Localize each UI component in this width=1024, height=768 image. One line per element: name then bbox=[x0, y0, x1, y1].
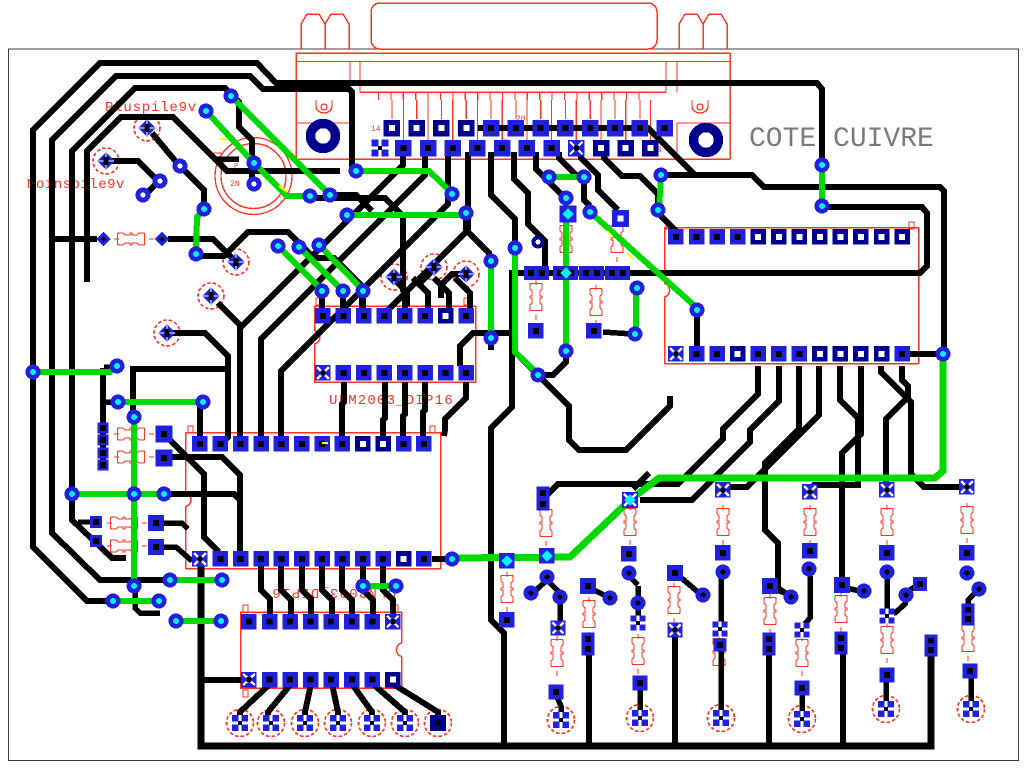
pad U1 bottom 12 bbox=[416, 551, 432, 567]
pad U4 top 10 bbox=[853, 229, 869, 245]
wire U1 to U3 pin 322 bbox=[322, 566, 332, 614]
via ch1 low bbox=[553, 590, 568, 605]
wire from P4 bbox=[218, 303, 243, 328]
wire fan t7 bbox=[886, 366, 908, 486]
pad ch0 low bbox=[499, 612, 515, 628]
wire J1-5 to via bbox=[491, 152, 515, 244]
wire vertical bbox=[130, 371, 136, 414]
via ch 887 bbox=[880, 565, 895, 580]
pad ch4 mid bbox=[795, 623, 810, 638]
pad U1 bottom 1 bbox=[192, 551, 208, 567]
via 160,181 bbox=[153, 174, 168, 189]
wire U1 to U3 pin 281 bbox=[281, 566, 291, 614]
wire J1-1 to U1 bbox=[240, 152, 403, 438]
wire web d bbox=[540, 377, 670, 450]
wire net1 ring outer bbox=[33, 63, 822, 601]
pad ch 629 bbox=[621, 546, 637, 562]
wire ch3 bbox=[718, 576, 724, 624]
wire U2 to U1 d bbox=[423, 382, 425, 436]
capacitor C1 outline bbox=[215, 138, 292, 215]
circle mark pad P7 bbox=[421, 254, 447, 280]
pad J1 bottom 9 bbox=[568, 140, 585, 157]
wire J1-9 to pad bbox=[581, 152, 618, 210]
wire fan t2 bbox=[765, 366, 799, 595]
via 134,417 bbox=[127, 410, 142, 425]
pad U2 top 6 bbox=[418, 308, 434, 324]
pad U2 bottom 5 bbox=[397, 365, 413, 381]
IC U4 outline (DIP24 right) bbox=[665, 228, 919, 364]
pad J1 top 14 bbox=[384, 120, 401, 137]
via 343,291 bbox=[336, 284, 351, 299]
wire R1 to P3 bbox=[168, 239, 236, 262]
pad ch5aux b bbox=[835, 642, 848, 655]
pad U4 bottom 6 bbox=[771, 346, 787, 362]
via 134,494 bbox=[127, 487, 142, 502]
resistor RB4 bbox=[583, 597, 595, 637]
circle mark terminal T7 bbox=[425, 710, 452, 737]
pad J1 top 16 bbox=[433, 120, 450, 137]
pad ch 723 bbox=[715, 545, 731, 561]
connector J1 hex standoff right bbox=[679, 14, 727, 49]
wire U3 pin to terminal 438 bbox=[393, 684, 438, 717]
via 159,601 bbox=[152, 594, 167, 609]
pad L440 bbox=[98, 435, 109, 446]
via 319,245 bbox=[312, 238, 327, 253]
resistor RA5 bbox=[881, 505, 893, 545]
pin marks bbox=[316, 298, 321, 305]
pad U2 top 1 bbox=[315, 308, 331, 324]
pad U2 bottom 4 bbox=[377, 365, 393, 381]
pad J1 bottom 8 bbox=[543, 140, 560, 157]
via 590,212 bbox=[583, 205, 598, 220]
wire feed U2 pad 428 bbox=[413, 278, 428, 310]
wire ground bus bbox=[201, 566, 931, 746]
wire via to U4 pin2 bbox=[694, 312, 700, 350]
pad U4 top 12 bbox=[894, 229, 910, 245]
wire green g14 bbox=[515, 248, 538, 374]
wire bbox=[144, 184, 156, 196]
wire U4 pin to via bbox=[906, 351, 938, 357]
pad mid 571 bbox=[564, 266, 578, 280]
wire stub R4 bbox=[78, 520, 92, 525]
pad U4 bottom 2 bbox=[689, 346, 705, 362]
via ch 967 bbox=[960, 566, 975, 581]
wire R3 path bbox=[170, 457, 240, 500]
IC U3 outline ULN2003_DIP16 bbox=[241, 612, 402, 688]
pad U4 top 9 bbox=[833, 229, 849, 245]
pad J1 top 15 bbox=[408, 120, 425, 137]
wire green g15 bbox=[488, 261, 494, 338]
pad U4 top 4 bbox=[730, 229, 746, 245]
via ch 629 bbox=[622, 566, 637, 581]
pad U4 bottom 1 bbox=[668, 346, 684, 362]
circle mark terminal U4 bbox=[789, 706, 816, 733]
wire via to via2 bbox=[544, 355, 566, 375]
pad chE top bbox=[879, 482, 895, 498]
pad U3 top 7 bbox=[365, 614, 381, 630]
svg-text:COTE CUIVRE: COTE CUIVRE bbox=[749, 124, 934, 155]
via 231,96 bbox=[224, 89, 239, 104]
via 396,586 bbox=[389, 579, 404, 594]
pad R1 right (diamond) bbox=[155, 232, 169, 246]
via 637,288 bbox=[630, 281, 645, 296]
pad U4 bottom 3 bbox=[709, 346, 725, 362]
resistor RA4 bbox=[804, 505, 816, 545]
wire R2 to U1 bbox=[168, 438, 219, 552]
wire J1-8 to via bbox=[559, 152, 581, 176]
pad mid 542 bbox=[535, 266, 549, 280]
wire via to via bbox=[466, 217, 489, 258]
wire stub bbox=[104, 364, 113, 370]
via ch5 aux bbox=[899, 588, 914, 603]
pad J1 bottom 4 bbox=[445, 140, 462, 157]
via 452,559 bbox=[445, 552, 460, 567]
via 549,177 bbox=[542, 170, 557, 185]
wire via to U1 pin3 bbox=[170, 494, 240, 553]
pad U3 top 6 bbox=[344, 614, 360, 630]
wire ch1 bbox=[547, 580, 559, 592]
pad ch2aux a bbox=[582, 633, 595, 646]
wire P6 to U2 bbox=[394, 279, 407, 306]
via 117,366 bbox=[110, 359, 125, 374]
pad J1 top 20 bbox=[533, 120, 550, 137]
via ch 809 bbox=[802, 562, 817, 577]
wire ch2c bbox=[635, 606, 641, 618]
pad U1 bottom 2 bbox=[213, 551, 229, 567]
wire green g17 bbox=[590, 212, 697, 308]
pad U1 top 10 bbox=[375, 436, 391, 452]
via 822,206 bbox=[815, 199, 830, 214]
wire to U1 pin bbox=[222, 369, 228, 443]
wire ch1 to term bbox=[556, 695, 561, 714]
pad X 167,333 bbox=[158, 324, 176, 342]
pad U4 bottom 11 bbox=[874, 346, 890, 362]
pad U1 top 1 bbox=[192, 436, 208, 452]
pad J1 bottom 2 bbox=[395, 140, 412, 157]
pad bus end a bbox=[925, 635, 938, 648]
via 356,171 bbox=[349, 164, 364, 179]
wire U2 to U1 a bbox=[342, 382, 344, 436]
wire P7 bbox=[420, 269, 434, 283]
wire from P5 bbox=[167, 333, 228, 371]
pad mid top bbox=[560, 206, 577, 223]
via 310,196 bbox=[303, 189, 318, 204]
wire J1-4 to U2 bbox=[384, 152, 468, 312]
pad U4 bottom 5 bbox=[751, 346, 767, 362]
wire C1 stub bbox=[217, 156, 239, 162]
svg-text:Moinspile9v: Moinspile9v bbox=[27, 177, 125, 193]
pad U4 bottom 8 bbox=[812, 346, 828, 362]
pad J1 top 22 bbox=[582, 120, 599, 137]
via 322,291 bbox=[315, 284, 330, 299]
pad U4 top 8 bbox=[812, 229, 828, 245]
resistor RB5 bbox=[668, 583, 680, 623]
circle mark terminal U2 bbox=[627, 705, 654, 732]
pad U3 bottom 3 bbox=[282, 672, 298, 688]
via 254,184 bbox=[247, 177, 262, 192]
pad U3 top 2 bbox=[262, 614, 278, 630]
via 697,310 bbox=[690, 303, 705, 318]
pad X 236,262 bbox=[227, 253, 245, 271]
pad U3 bottom 5 bbox=[323, 672, 339, 688]
pad U1 bottom 11 bbox=[396, 551, 412, 567]
circle mark pad P2 bbox=[93, 148, 119, 174]
pad U4 top 1 bbox=[668, 229, 684, 245]
pad U1 bottom 3 bbox=[233, 551, 249, 567]
pad ch4aux b bbox=[763, 643, 776, 656]
pad terminal 240 bbox=[232, 715, 248, 731]
resistor RA2 bbox=[624, 505, 636, 545]
pad U4 top 11 bbox=[874, 229, 890, 245]
via ch6 aux bbox=[972, 582, 987, 597]
wire ch4 to term bbox=[799, 691, 805, 713]
yellow marks bbox=[220, 139, 633, 443]
pad J1 top 23 bbox=[607, 120, 624, 137]
pad terminal 305 bbox=[297, 715, 313, 731]
via 658,210 bbox=[651, 203, 666, 218]
wire via to via g17 bbox=[584, 181, 590, 206]
pad L522 bbox=[90, 516, 102, 528]
via 299,247 bbox=[292, 240, 307, 255]
pad J1 bottom 12 bbox=[642, 140, 659, 157]
pad J1 bottom 7 bbox=[519, 140, 536, 157]
pad J1 top 19 bbox=[508, 120, 524, 137]
pad U2 top 8 bbox=[458, 308, 474, 324]
wire feed U2 pad 449 bbox=[434, 278, 449, 310]
resistor RB2 bbox=[551, 636, 563, 676]
wire J1-2 to U1 bbox=[261, 152, 425, 438]
pad ch1 low bbox=[549, 685, 564, 700]
via 491,338 bbox=[484, 331, 499, 346]
via 566,198 bbox=[559, 191, 574, 206]
resistor R1 bbox=[114, 233, 154, 245]
pad ch6 mid a bbox=[962, 604, 975, 617]
wire bus joiner 3 bbox=[766, 652, 772, 746]
via 363,291 bbox=[356, 284, 371, 299]
wire via down bbox=[135, 589, 160, 613]
wire U1 to U3 pin 261 bbox=[261, 566, 270, 614]
svg-text:14: 14 bbox=[371, 125, 381, 134]
circle mark pad P5 bbox=[154, 320, 180, 346]
pad U1 top 9 bbox=[355, 436, 371, 452]
pad ch3 mid2 bbox=[714, 639, 727, 652]
wire green g23 bbox=[196, 209, 204, 253]
pad U2 bottom 2 bbox=[336, 365, 352, 381]
wire to via bbox=[183, 169, 204, 205]
pad ch5 low bbox=[880, 668, 895, 683]
pad U4 bottom 10 bbox=[853, 346, 869, 362]
spare hole bbox=[534, 238, 543, 247]
wire U2 to U1 c bbox=[403, 382, 405, 436]
pad U4 top 6 bbox=[771, 229, 787, 245]
pad U1 top 2 bbox=[213, 436, 229, 452]
via ch4aux bbox=[784, 590, 799, 605]
pad J1 bottom 6 bbox=[494, 140, 511, 157]
pad U3 bottom 8 bbox=[385, 672, 401, 688]
pad U4 top 7 bbox=[792, 229, 808, 245]
pad ch4 low bbox=[795, 681, 810, 696]
pad J1 bottom 5 bbox=[469, 140, 486, 157]
via 196,254 bbox=[189, 247, 204, 262]
wire bus joiner 2 bbox=[672, 634, 678, 746]
pad chF top bbox=[959, 479, 975, 495]
via 661,175 bbox=[654, 168, 669, 183]
wire green g1 bbox=[33, 366, 117, 372]
resistor R5 bbox=[107, 540, 147, 552]
wire U3 pin to terminal 305 bbox=[305, 684, 311, 717]
wire top bus to via bbox=[661, 175, 944, 350]
via 164,494 bbox=[157, 487, 172, 502]
pad U2 top 7 bbox=[438, 308, 454, 324]
wire stub bbox=[104, 399, 114, 405]
pad mid R8 low bbox=[586, 323, 602, 339]
via 943,354 bbox=[936, 347, 951, 362]
pad ch5aux top bbox=[834, 577, 850, 593]
pad U2 top 2 bbox=[336, 308, 352, 324]
pad J1 top 17 bbox=[458, 120, 475, 137]
pad L541 bbox=[90, 535, 102, 547]
pad ch4aux top bbox=[762, 578, 778, 594]
pad U3 top 1 bbox=[241, 614, 257, 630]
pad R5 right bbox=[148, 539, 164, 555]
pad U3 bottom 6 bbox=[344, 672, 360, 688]
wire net4 ring inner bbox=[87, 117, 340, 282]
via 72,494 bbox=[65, 487, 80, 502]
pad U3 bottom 4 bbox=[303, 672, 319, 688]
wire net2 ring bbox=[52, 76, 352, 580]
pad U1 bottom 7 bbox=[314, 551, 330, 567]
circle mark terminal U3 bbox=[708, 705, 735, 732]
wire green g7 bbox=[176, 618, 221, 624]
pad terminal 971 bbox=[963, 701, 979, 717]
via 822,165 bbox=[815, 158, 830, 173]
wire green g9 bbox=[231, 96, 330, 195]
resistor RB11 bbox=[962, 621, 974, 661]
via 113,601 bbox=[106, 594, 121, 609]
wire green g21 long bbox=[452, 356, 943, 558]
wire U3 pin to terminal 338 bbox=[332, 684, 338, 717]
wire fan t0 bbox=[546, 366, 758, 496]
wire green g10 bbox=[356, 171, 452, 193]
via ch 547 bbox=[540, 570, 555, 585]
pad U4 bottom 7 bbox=[792, 346, 808, 362]
via 204,209 bbox=[197, 202, 212, 217]
pad U4 bottom 12 bbox=[894, 346, 910, 362]
pad U2 top 4 bbox=[377, 308, 393, 324]
pad J1 top 24 bbox=[632, 120, 649, 137]
pad terminal 338 bbox=[330, 715, 346, 731]
wire J1-10 to via bbox=[604, 152, 658, 206]
wire ch3 to term bbox=[718, 649, 724, 712]
wire ch2 to term bbox=[637, 686, 643, 712]
pad J1 bottom 3 bbox=[420, 140, 437, 157]
via 635,334 bbox=[628, 327, 643, 342]
wire U3 pin to terminal 268 bbox=[268, 684, 291, 717]
pad X 211,296 bbox=[202, 287, 220, 305]
pad ch3aux low bbox=[668, 623, 683, 638]
pad mid 623 bbox=[616, 266, 630, 280]
wire feed chB bbox=[633, 473, 649, 489]
wire ch2b bbox=[635, 586, 641, 600]
pad mid R6 low bbox=[528, 323, 544, 339]
wire stub bbox=[488, 330, 494, 350]
wire green g20 bbox=[659, 177, 661, 209]
resistor RB7 bbox=[764, 594, 776, 634]
pad U1 bottom 10 bbox=[375, 551, 391, 567]
IC U2 outline ULM2003_DIP16 bbox=[315, 306, 476, 382]
wire green g16 bbox=[563, 198, 569, 351]
wire fan t3 bbox=[727, 366, 819, 487]
via 180,166 bbox=[173, 159, 188, 174]
wire ch5aux bbox=[846, 588, 860, 591]
pad X 434,267 bbox=[425, 258, 443, 276]
via 203,402 bbox=[196, 395, 211, 410]
IC U1 outline (large DIP24) bbox=[186, 433, 441, 569]
pad U3 top 3 bbox=[282, 614, 298, 630]
via 221,621 bbox=[214, 614, 229, 629]
wire green g3 bbox=[72, 491, 164, 497]
pad R1 left (diamond) bbox=[96, 232, 110, 246]
pad mid 586 bbox=[579, 266, 593, 280]
wire green g4 bbox=[131, 417, 137, 586]
via 584,177 bbox=[577, 170, 592, 185]
pad U4 bottom 4 bbox=[730, 346, 746, 362]
pad ch 547 bbox=[539, 548, 555, 564]
wire fan t4 bbox=[810, 366, 858, 489]
via 363,586 bbox=[356, 579, 371, 594]
pad chC top bbox=[715, 482, 731, 498]
pad bus end b bbox=[925, 644, 938, 657]
pad ch2 mid bbox=[631, 616, 646, 631]
resistor R7 bbox=[560, 222, 572, 262]
wire ch5b bbox=[887, 597, 905, 614]
pad U3 top 8 bbox=[385, 614, 401, 630]
pad J1 mounting left bbox=[311, 124, 336, 149]
pad L428 bbox=[98, 423, 109, 434]
pad U3 bottom 2 bbox=[262, 672, 278, 688]
pad terminal 802 bbox=[794, 711, 810, 727]
pad J1 top 18 bbox=[483, 120, 500, 137]
wire green g2 bbox=[118, 399, 203, 405]
via 452,194 bbox=[445, 187, 460, 202]
pad U4 top 3 bbox=[709, 229, 725, 245]
pad mid 612 bbox=[605, 266, 619, 280]
pad terminal 372 bbox=[364, 715, 380, 731]
pad chA b bbox=[537, 498, 550, 511]
wire via to U2 bbox=[316, 198, 405, 310]
wire green g8 bbox=[206, 111, 310, 196]
wire U1 to U3 pin 342 bbox=[342, 566, 352, 614]
wire via to U2 pin3 bbox=[360, 293, 366, 308]
wire ch6b bbox=[968, 591, 977, 606]
wire via to U2 pin2 bbox=[340, 294, 346, 308]
circle mark terminal U1 bbox=[548, 707, 575, 734]
wire U2 to U1 e bbox=[444, 382, 466, 436]
via 143,195 bbox=[136, 188, 151, 203]
pad J1 mounting right bbox=[694, 128, 719, 153]
pad J1 top 25 bbox=[657, 120, 674, 137]
wire P8 bbox=[441, 274, 466, 298]
pad R3 right bbox=[156, 450, 173, 467]
pad U1 top 6 bbox=[294, 436, 310, 452]
via 278,246 bbox=[271, 239, 286, 254]
pad U3 top 5 bbox=[323, 614, 339, 630]
pad terminal 405 bbox=[397, 715, 413, 731]
pad L453 bbox=[98, 448, 109, 459]
pad chA a bbox=[537, 487, 550, 500]
via ch2aux bbox=[603, 591, 618, 606]
wire ch6 to term bbox=[968, 674, 974, 703]
